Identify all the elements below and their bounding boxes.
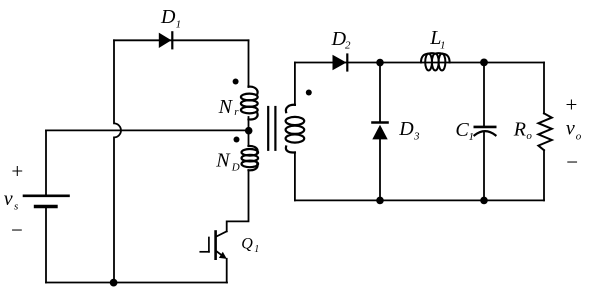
svg-text:+: + bbox=[566, 92, 578, 116]
svg-text:o: o bbox=[526, 130, 532, 142]
svg-text:D: D bbox=[160, 6, 176, 28]
svg-text:v: v bbox=[4, 188, 13, 210]
svg-text:−: − bbox=[566, 150, 578, 174]
svg-text:+: + bbox=[11, 159, 23, 183]
svg-text:v: v bbox=[566, 118, 575, 140]
svg-text:D: D bbox=[398, 118, 414, 140]
svg-text:1: 1 bbox=[176, 19, 182, 31]
svg-text:N: N bbox=[218, 96, 234, 118]
svg-text:o: o bbox=[576, 130, 582, 142]
svg-text:−: − bbox=[11, 218, 23, 242]
svg-text:2: 2 bbox=[345, 40, 351, 52]
svg-text:r: r bbox=[234, 106, 239, 118]
svg-text:1: 1 bbox=[469, 131, 475, 143]
svg-text:s: s bbox=[14, 200, 18, 212]
svg-text:1: 1 bbox=[254, 244, 259, 255]
svg-text:N: N bbox=[215, 150, 231, 172]
svg-text:Q: Q bbox=[241, 235, 253, 252]
svg-text:3: 3 bbox=[413, 130, 420, 142]
svg-text:R: R bbox=[513, 119, 526, 141]
svg-text:C: C bbox=[455, 119, 469, 141]
svg-text:D: D bbox=[231, 161, 240, 173]
svg-text:1: 1 bbox=[440, 39, 446, 51]
